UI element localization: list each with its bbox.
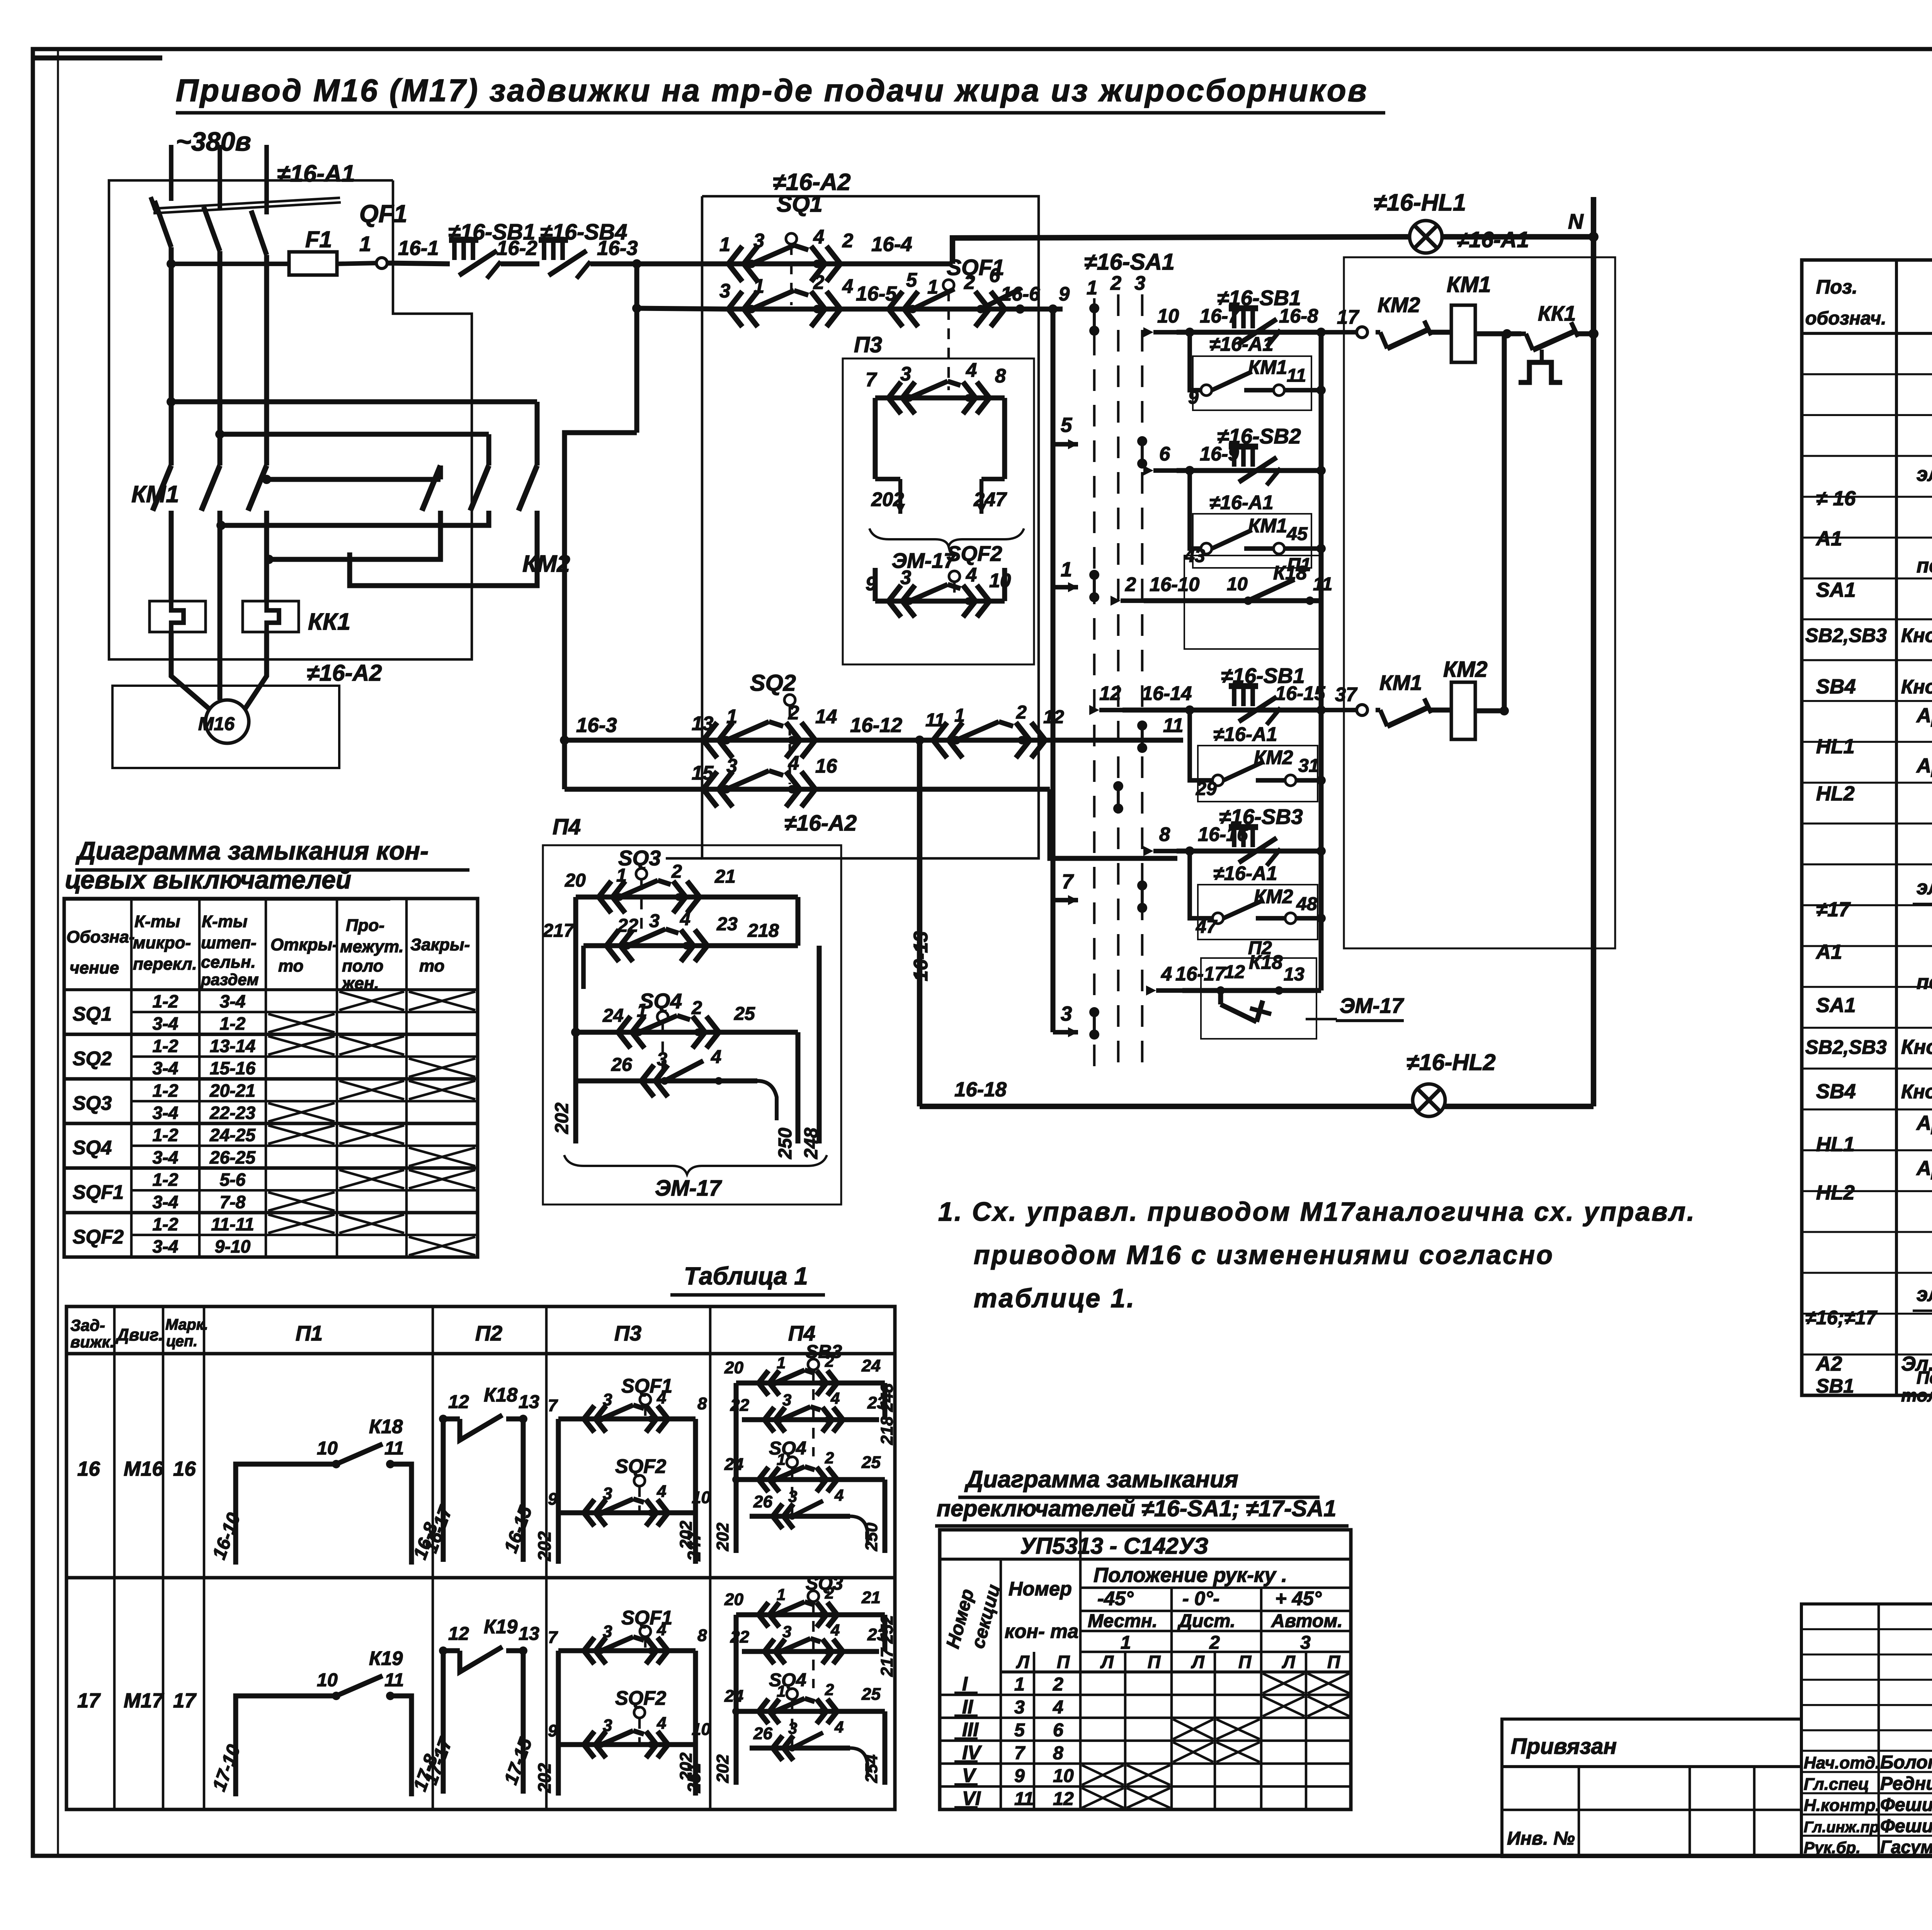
svg-text:4: 4 [813,226,824,248]
svg-text:16-5: 16-5 [856,282,897,305]
SQ2 contact row 13-1-2-14 wire 16-12 [565,702,1184,758]
motor M16 [206,700,249,743]
svg-text:межут.: межут. [340,937,404,956]
svg-text:1: 1 [927,276,938,298]
svg-text:НL1: НL1 [1816,735,1855,758]
svg-text:1: 1 [637,1000,647,1021]
SA1 stub 3 [1053,1030,1078,1035]
box KM2 hold [1198,746,1318,802]
P4 brace [564,1155,827,1174]
svg-text:12: 12 [1224,962,1245,982]
svg-text:4: 4 [842,275,853,297]
svg-text:8: 8 [1159,823,1170,845]
svg-text:SA1: SA1 [1816,579,1856,601]
svg-text:SQ4: SQ4 [769,1438,806,1459]
svg-text:3: 3 [782,1391,791,1409]
svg-text:Про-: Про- [346,916,384,935]
svg-text:202: 202 [871,488,904,510]
P4 SQ4 row 24-1-2-25 [571,997,798,1143]
P4 SQ3 row 20-1-2-21 [565,861,798,1032]
svg-text:Привязан: Привязан [1511,1734,1617,1759]
svg-text:16: 16 [77,1458,100,1480]
row K18: arrow 2 [1121,598,1144,603]
svg-text:кон- та: кон- та [1005,1620,1078,1642]
wire 16-2 [501,262,539,267]
svg-text:УП5313 - С142УЗ: УП5313 - С142УЗ [1020,1533,1208,1559]
svg-text:Двиг.: Двиг. [115,1325,163,1344]
SA1 contact dots col1 row 9 [1089,303,1099,313]
svg-text:4: 4 [834,1718,844,1736]
pushbutton #16-SB1 [1229,305,1258,311]
svg-text:Кнопка КЕ011 УЗ исполн.2: Кнопка КЕ011 УЗ исполн.2 [1901,1036,1932,1058]
svg-text:то: то [278,957,303,975]
svg-text:37: 37 [1335,683,1358,705]
svg-text:10: 10 [317,1438,338,1459]
svg-text:≠17: ≠17 [1816,898,1851,921]
svg-text:Обозна-: Обозна- [66,928,135,946]
svg-text:11: 11 [1287,365,1306,386]
svg-text:Кнопка КЕ011УЗ исполн.2толк. к: Кнопка КЕ011УЗ исполн.2толк. красн. [1901,676,1932,698]
svg-text:П: П [1148,1652,1161,1672]
svg-text:12: 12 [448,1391,469,1412]
svg-text:2: 2 [1110,272,1121,294]
svg-text:то: то [419,957,444,975]
svg-text:17: 17 [77,1689,101,1712]
svg-text:≠16-А1: ≠16-А1 [1209,333,1274,355]
svg-text:12: 12 [448,1623,469,1644]
P4 cell circuit [677,1341,896,1553]
svg-text:1: 1 [726,705,737,727]
svg-text:КМ2: КМ2 [1378,293,1420,317]
svg-text:К19: К19 [369,1647,403,1669]
svg-text:7: 7 [548,1628,558,1647]
svg-text:16-17: 16-17 [1175,963,1226,985]
svg-text:7: 7 [1062,870,1074,893]
phase wire L3 lower [264,255,269,466]
svg-text:1-2: 1-2 [153,1170,179,1190]
svg-text:13: 13 [519,1391,539,1412]
signature scribbles [1804,1764,1932,1857]
row SB3: arrow 8 [1153,849,1177,853]
svg-text:вижк.: вижк. [70,1333,114,1351]
wire to coil KM2 [1430,708,1452,713]
svg-text:А1: А1 [1815,941,1842,963]
box P3 [843,358,1034,664]
svg-text:202: 202 [677,1521,696,1549]
svg-text:поло: поло [342,957,383,975]
row SB1-KM1: arrow 10 [1153,330,1177,335]
svg-text:А1: А1 [1815,527,1842,550]
svg-text:3: 3 [719,280,730,302]
svg-text:КМ1: КМ1 [131,481,179,508]
svg-text:3: 3 [788,1719,797,1737]
svg-text:7: 7 [548,1396,558,1415]
svg-text:3: 3 [753,229,764,251]
wire phase to KK1 left [169,552,174,601]
svg-text:НL2: НL2 [1816,782,1855,805]
svg-text:17: 17 [1337,306,1360,328]
svg-text:2: 2 [691,997,702,1018]
svg-text:1: 1 [1061,558,1072,581]
svg-text:3-4: 3-4 [153,1147,179,1167]
aux NC KM1 lower [1376,708,1380,712]
svg-text:8: 8 [697,1394,707,1413]
KM1 hold contact 9-11 [1188,365,1326,408]
svg-text:4: 4 [1053,1697,1063,1718]
svg-text:IV: IV [962,1741,982,1764]
svg-text:переключателей ≠16-SA1; ≠17-SA: переключателей ≠16-SA1; ≠17-SA1 [937,1495,1336,1521]
contactor KM2 main contacts [422,466,537,511]
svg-text:1: 1 [777,1585,786,1604]
svg-text:4: 4 [711,1047,721,1067]
svg-text:SQ4: SQ4 [769,1670,806,1690]
P4 SQ4 row 26-3-4 [576,1047,777,1120]
svg-text:+ 45°: + 45° [1275,1587,1322,1609]
svg-text:КМ1: КМ1 [1248,356,1287,378]
box P1 [1184,556,1322,649]
svg-text:К18: К18 [484,1384,518,1406]
svg-text:25: 25 [861,1453,881,1472]
coil KM1 [1451,305,1475,362]
wire 16-14 16-15 [1122,708,1321,713]
svg-text:раздем: раздем [201,970,259,989]
svg-text:9: 9 [1188,387,1199,408]
svg-text:202: 202 [534,1531,554,1561]
KM2 output cross wires [221,511,489,525]
svg-text:16-8: 16-8 [1279,305,1318,327]
svg-text:сельн.: сельн. [201,953,256,972]
KM2 top feed wire 2 [215,430,224,439]
heading switch diagram line1 [935,1466,1349,1526]
thermal relay KK1 heater right [243,601,299,632]
svg-text:17: 17 [173,1689,197,1712]
P2 cell circuit К19 [420,1616,539,1794]
svg-text:Гасуманц: Гасуманц [1880,1837,1932,1857]
contactor KM1 main contacts [153,466,267,552]
svg-text:П3: П3 [854,333,882,357]
svg-text:11: 11 [925,710,945,731]
svg-text:Л: Л [1100,1652,1114,1672]
svg-text:2: 2 [788,702,799,724]
svg-text:П: П [1238,1652,1252,1672]
svg-text:1-2: 1-2 [153,1081,179,1101]
parts table grid [1802,260,1932,1395]
svg-text:4: 4 [1161,963,1172,985]
svg-text:10: 10 [1227,574,1248,595]
svg-text:F1: F1 [305,226,332,252]
svg-text:I: I [962,1673,968,1695]
svg-text:22: 22 [730,1396,749,1415]
svg-text:16-14: 16-14 [1142,682,1192,704]
svg-text:Инв. №: Инв. № [1507,1828,1575,1849]
box KM1 hold2 [1193,514,1311,568]
svg-text:КМ1: КМ1 [1379,671,1422,695]
svg-text:20-21: 20-21 [209,1081,255,1101]
svg-text:3-4: 3-4 [153,1192,179,1212]
svg-text:254: 254 [862,1755,881,1783]
svg-text:2: 2 [842,229,853,251]
svg-text:24: 24 [861,1356,881,1375]
svg-text:Арматура ЛС-53 У220в: Арматура ЛС-53 У220в [1916,704,1932,727]
svg-text:217 252: 217 252 [878,1615,896,1677]
svg-text:Пост ПКЕ 212-3УЗ толк. верхн: Пост ПКЕ 212-3УЗ толк. верхн. 1з1р [1917,1368,1932,1388]
junction at 3079 [1185,328,1194,337]
svg-text:3-4: 3-4 [220,991,246,1011]
svg-text:М17: М17 [124,1689,164,1712]
coil KM2 [1451,682,1475,739]
P2 cell circuit К18 [420,1384,539,1562]
svg-text:Автом.: Автом. [1271,1611,1343,1631]
svg-text:Положение рук-ку .: Положение рук-ку . [1094,1564,1287,1587]
wire 16-1 [387,263,450,264]
svg-text:≠16-А1: ≠16-А1 [1213,723,1277,745]
P3 202/247 tails [871,479,1007,514]
svg-text:3: 3 [782,1622,791,1641]
table Tablica1 grid [66,1306,895,1809]
svg-text:НL1: НL1 [1816,1133,1855,1156]
svg-text:218 248: 218 248 [878,1383,896,1445]
box #16-A2 control outline [702,196,1039,858]
svg-text:4: 4 [966,564,977,586]
svg-text:Поз.: Поз. [1816,276,1857,298]
svg-text:НL2: НL2 [1816,1181,1855,1204]
svg-text:4: 4 [788,752,799,774]
sheet title [176,73,1385,113]
svg-text:Кнопка КЕ011УЗ исполн. 2,толк.: Кнопка КЕ011УЗ исполн. 2,толк.черн. [1901,624,1932,646]
svg-text:3: 3 [1061,1002,1072,1025]
svg-text:КК1: КК1 [308,608,350,635]
limit switch diagram table [64,899,478,1257]
svg-text:5-6: 5-6 [220,1170,246,1190]
svg-text:26: 26 [753,1724,772,1743]
svg-text:Арматура ЛС-53 У220в: Арматура ЛС-53 У220в [1916,1112,1932,1135]
svg-text:26-25: 26-25 [209,1147,256,1167]
contact K18 10-11 [1227,562,1332,605]
SQ2 contact row 15-3-4-16 [565,752,1050,807]
svg-text:1. Сх. управл. приводом М17ан: 1. Сх. управл. приводом М17аналогична сх… [938,1197,1696,1227]
wire 16-4 rise to lamp line [952,237,1410,264]
svg-text:SB1: SB1 [1816,1375,1854,1397]
svg-text:Диаграмма замыкания: Диаграмма замыкания [964,1466,1238,1493]
wire 16-10 [1144,598,1321,603]
svg-text:цевых выключателей: цевых выключателей [65,865,351,894]
aux NC KM2 [1376,330,1380,335]
svg-text:SQF2: SQF2 [615,1455,666,1477]
leader EM-17 [1306,1018,1337,1021]
svg-text:SQ2: SQ2 [73,1047,112,1069]
svg-text:250: 250 [862,1522,881,1551]
svg-text:Марк.: Марк. [165,1316,208,1333]
P4 cell circuit [677,1573,896,1785]
svg-text:≠16-SB2: ≠16-SB2 [1217,424,1301,448]
svg-text:чение: чение [70,958,119,977]
svg-text:Гл.инж.пр: Гл.инж.пр [1804,1819,1879,1836]
svg-text:П4: П4 [553,815,581,839]
svg-text:202: 202 [713,1522,732,1551]
svg-text:3: 3 [649,911,660,931]
svg-text:13: 13 [519,1623,539,1644]
svg-text:2: 2 [825,1352,834,1370]
parts table content [1805,341,1932,1405]
svg-text:5: 5 [1014,1720,1025,1741]
svg-text:К18: К18 [1249,951,1283,973]
P3 brace EM-17 [869,528,1024,573]
svg-text:Откры-: Откры- [270,935,338,954]
svg-text:Номер: Номер [1009,1578,1072,1600]
limit switch table data [73,991,475,1257]
pushbutton #16-SB4 in feed [539,237,568,243]
svg-text:22: 22 [617,915,638,936]
svg-text:ЭМ-17: ЭМ-17 [655,1176,723,1201]
phase wire L3 [264,145,269,214]
wire 16-18 bottom [920,1104,1594,1109]
svg-text:~380в: ~380в [176,127,251,156]
svg-text:24-25: 24-25 [209,1125,256,1145]
svg-text:SQ1: SQ1 [777,191,823,217]
svg-text:SB2,SB3: SB2,SB3 [1805,1036,1887,1058]
svg-text:≠16-НL2: ≠16-НL2 [1406,1049,1496,1075]
wire to SQF1 row [637,308,726,309]
svg-text:2: 2 [825,1449,834,1467]
svg-text:247: 247 [973,488,1007,510]
svg-text:16: 16 [173,1458,196,1480]
svg-text:элементы управления: элементы управления [1917,1283,1932,1306]
svg-text:Л: Л [1282,1652,1296,1672]
svg-text:Закры-: Закры- [410,935,470,954]
svg-text:≠16-А1: ≠16-А1 [277,160,355,187]
svg-text:2: 2 [1016,702,1027,723]
box A2 motor enclosure [112,686,339,768]
svg-text:11: 11 [384,1438,404,1459]
svg-text:3: 3 [603,1622,612,1641]
svg-text:1-2: 1-2 [153,1125,179,1145]
svg-text:SB4: SB4 [1816,1080,1856,1103]
svg-text:П: П [1327,1652,1341,1672]
KM2 hold contact 29-31 [1196,755,1326,799]
svg-text:3: 3 [657,1049,667,1070]
P1 cell circuit К19 [209,1647,444,1796]
svg-text:Болотов: Болотов [1880,1752,1932,1773]
lamp #16-HL1 [1410,221,1442,253]
wire 16-9 [1177,468,1321,473]
svg-text:1: 1 [359,232,371,256]
svg-text:3-4: 3-4 [153,1103,179,1123]
svg-text:К18: К18 [369,1415,403,1437]
svg-text:≠16-А1: ≠16-А1 [1457,228,1529,252]
svg-text:11: 11 [1313,574,1332,595]
KM1 hold contact branch wire [1190,332,1201,390]
A2 box bottom extension [666,857,702,860]
wire KK1 to N rail [1577,331,1594,336]
svg-text:3: 3 [900,363,911,385]
SA1 stub 5 [1053,442,1078,447]
svg-text:1-2: 1-2 [153,1214,179,1234]
svg-text:П1: П1 [296,1321,323,1345]
fuse F1 [289,252,337,275]
svg-text:45: 45 [1286,523,1308,544]
svg-text:3: 3 [1300,1632,1311,1653]
svg-text:16-10: 16-10 [1150,573,1199,595]
svg-text:SQF2: SQF2 [73,1226,124,1248]
svg-text:1-2: 1-2 [220,1014,246,1034]
svg-text:П2: П2 [475,1321,503,1345]
svg-text:9: 9 [1059,283,1070,305]
svg-text:16: 16 [815,755,837,777]
svg-text:7: 7 [866,369,878,391]
svg-text:QF1: QF1 [359,200,407,228]
limit switch SQ1 stem [786,233,797,244]
svg-text:8: 8 [697,1626,707,1645]
svg-text:≠16-SA1: ≠16-SA1 [1084,249,1175,275]
SA1 contact dots col3 at 5 [1137,436,1147,446]
svg-text:2: 2 [671,861,682,882]
SQF1 row wire 16-5 16-6 [719,264,1070,327]
svg-text:202: 202 [677,1752,696,1781]
svg-text:II: II [962,1696,973,1718]
SQ1 contact row wire 16-4 [719,226,952,282]
svg-text:штеп-: штеп- [201,933,257,952]
heading closing diagram line1 [63,836,469,899]
svg-text:ЭМ-17: ЭМ-17 [1340,994,1404,1018]
svg-text:- 0°-: - 0°- [1182,1587,1219,1609]
svg-text:1: 1 [1121,1632,1131,1653]
SA1 dashed column 3 [1141,294,1144,1070]
SA1 stub 1 [1053,585,1078,590]
svg-text:11-11: 11-11 [211,1214,254,1234]
svg-text:3: 3 [603,1390,612,1409]
wire lamp to N [1442,234,1594,240]
svg-text:7: 7 [1014,1743,1026,1764]
svg-text:5: 5 [906,269,917,291]
junction 16-6 [1015,304,1025,314]
wire fuse to terminal [337,263,376,264]
svg-text:Диаграмма замыкания кон-: Диаграмма замыкания кон- [75,836,429,865]
svg-text:4: 4 [656,1482,666,1501]
svg-text:Гл.спец: Гл.спец [1804,1775,1869,1794]
phase wire L1 [169,145,173,201]
row K18 lower: arrow 4 [1156,988,1182,993]
svg-text:обознач.: обознач. [1805,308,1886,329]
svg-text:Рук.бр.: Рук.бр. [1804,1838,1861,1857]
svg-text:16-3: 16-3 [597,237,638,260]
P4 202 rail [573,1032,578,1143]
svg-text:29: 29 [1196,778,1217,799]
P1 cell circuit К18 [209,1415,442,1565]
svg-text:жен.: жен. [341,974,379,993]
junction node 16-3 [632,259,641,268]
svg-text:SQ4: SQ4 [73,1137,112,1159]
KM2 hold contact 47-48 [1196,894,1326,937]
svg-text:21: 21 [714,866,736,887]
svg-text:толк. средн. 1з1р толк. нчжн.: толк. средн. 1з1р толк. нчжн. 1з1р [1901,1385,1932,1405]
box KM2 hold2 [1198,885,1318,940]
svg-text:2: 2 [1125,573,1136,595]
svg-text:SA1: SA1 [1816,994,1856,1017]
wire 16-7 16-8 [1177,330,1321,335]
svg-text:12: 12 [1043,707,1064,727]
svg-text:1: 1 [753,275,764,297]
svg-text:31: 31 [1298,755,1319,776]
svg-text:5: 5 [1061,414,1072,437]
svg-text:16-1: 16-1 [398,237,439,260]
svg-text:SQ3: SQ3 [73,1092,112,1114]
svg-text:10: 10 [1157,305,1179,327]
SA1 contact dots col3 at 7 [1137,880,1147,890]
svg-text:Редникин: Редникин [1880,1773,1932,1794]
svg-text:4: 4 [830,1389,840,1407]
svg-text:КК1: КК1 [1538,301,1576,325]
svg-text:3: 3 [788,1487,797,1505]
